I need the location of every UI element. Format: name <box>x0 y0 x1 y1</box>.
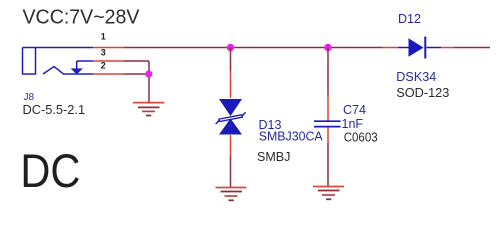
pin D13 top red segment <box>230 71 232 98</box>
top wire VCC rail <box>124 47 382 49</box>
svg-text:2: 2 <box>101 60 106 70</box>
svg-text:C0603: C0603 <box>344 130 378 144</box>
junction at pin2/ground <box>145 70 152 77</box>
svg-text:SMBJ30CA: SMBJ30CA <box>259 130 324 144</box>
wire C74 to ground <box>327 143 329 186</box>
junction node C74 <box>324 44 332 52</box>
wire corner down to ground <box>148 61 150 102</box>
svg-text:DSK34: DSK34 <box>396 70 436 84</box>
wire pin2 to junction <box>124 73 149 75</box>
wire junction to C74 <box>327 48 329 96</box>
wire junction to D13 <box>230 48 232 72</box>
wire pin3 to corner <box>124 60 149 62</box>
junction node D13 <box>227 44 235 52</box>
svg-text:SOD-123: SOD-123 <box>396 86 449 100</box>
ground symbol under J8 <box>133 103 164 116</box>
pin C74 bottom red segment <box>327 128 329 144</box>
svg-text:SMBJ: SMBJ <box>257 150 290 164</box>
svg-text:D12: D12 <box>398 12 421 26</box>
svg-text:3: 3 <box>101 48 106 58</box>
pin D12 right red segment <box>441 47 454 49</box>
svg-text:DC-5.5-2.1: DC-5.5-2.1 <box>23 102 86 117</box>
pin 3 red segment <box>93 60 124 62</box>
diode D12 <box>398 37 441 59</box>
wire D12 to right <box>454 47 490 49</box>
connector J8 barrel jack symbol <box>23 48 94 75</box>
pin D12 left red segment <box>382 47 398 49</box>
pin C74 top red segment <box>327 95 329 121</box>
svg-text:VCC:7V~28V: VCC:7V~28V <box>23 7 141 29</box>
svg-text:DC: DC <box>20 144 80 197</box>
TVS diode D13 <box>216 99 246 135</box>
svg-text:1nF: 1nF <box>342 117 364 131</box>
pin 2 red segment <box>93 73 124 75</box>
capacitor C74 <box>314 121 341 126</box>
pin D13 bottom red segment <box>230 135 232 156</box>
ground symbol under D13 <box>216 188 247 201</box>
svg-text:C74: C74 <box>343 103 366 117</box>
wire D13 to ground <box>230 156 232 187</box>
ground symbol under C74 <box>313 187 344 200</box>
pin 1 red segment <box>93 47 124 49</box>
svg-text:1: 1 <box>101 32 106 42</box>
